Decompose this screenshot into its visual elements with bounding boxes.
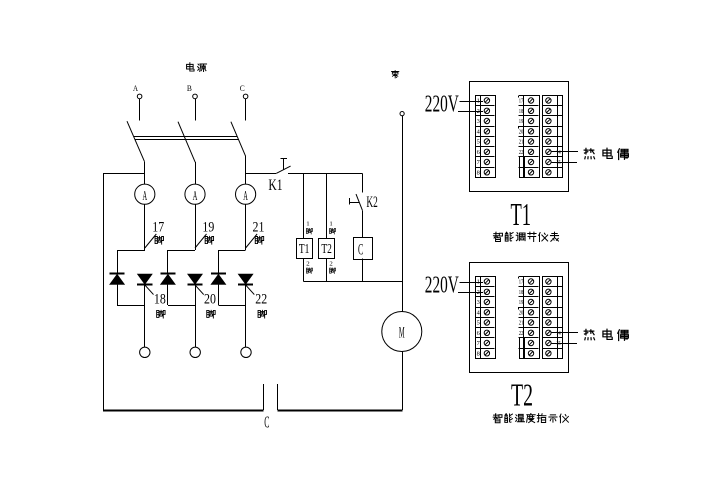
motor M: [382, 312, 422, 352]
wire T2 branch drop: [326, 174, 328, 239]
svg-text:A: A: [133, 83, 139, 93]
instrument box T1: [297, 239, 313, 259]
svg-text:3: 3: [477, 119, 480, 125]
switch K2 blade: [356, 194, 362, 210]
svg-text:B: B: [187, 83, 192, 93]
svg-text:22: 22: [255, 292, 267, 308]
svg-text:22: 22: [519, 331, 524, 337]
wire top bracket phase 3: [218, 250, 245, 252]
terminal screws right strip (T1 panel): [546, 98, 551, 175]
svg-text:2: 2: [329, 261, 332, 268]
wire bottom bus right: [277, 410, 402, 412]
svg-text:K2: K2: [366, 194, 377, 211]
svg-text:19: 19: [519, 119, 524, 125]
svg-text:220V: 220V: [425, 91, 459, 117]
wire thermocouple line 2 (T1 panel): [552, 162, 578, 164]
terminal A (supply input): [137, 94, 142, 99]
wire top bracket phase 2: [168, 250, 195, 252]
wire 220V line 1 (T1 panel): [459, 101, 483, 103]
wire branches bottom bus: [303, 281, 402, 283]
wire C terminal stub: [245, 99, 247, 121]
svg-text:21: 21: [253, 219, 265, 235]
label 热电偶 (thermocouple) (T1 panel): [584, 148, 628, 159]
svg-text:3: 3: [477, 300, 480, 306]
switch K1 blade: [276, 166, 290, 173]
svg-text:15: 15: [556, 341, 561, 347]
leader line pin 17: [145, 234, 157, 248]
svg-text:21: 21: [519, 321, 524, 327]
thyristor VT1b cathode bar: [137, 284, 152, 286]
leader line pin 22: [246, 285, 255, 295]
svg-text:1: 1: [306, 220, 309, 227]
label 电源 (power source): [187, 63, 207, 72]
wire left rail (vertical bus): [103, 174, 105, 410]
svg-text:T2: T2: [511, 376, 533, 412]
terminal screws left strip (T1 panel): [484, 98, 489, 175]
svg-text:6: 6: [477, 331, 480, 337]
terminal strip right (T1 panel): [542, 95, 562, 177]
label pin 2 of T1: [306, 261, 312, 274]
wire branch drop phase 3: [218, 250, 220, 274]
svg-text:T1: T1: [299, 242, 310, 257]
thyristor VT2b cathode bar: [187, 284, 202, 286]
svg-text:1: 1: [329, 220, 332, 227]
thyristor VT3a (up): [211, 274, 226, 284]
svg-text:M: M: [399, 324, 405, 341]
thyristor VT2b (down): [188, 274, 203, 284]
terminal screws middle strip (T2 panel): [528, 279, 533, 356]
svg-text:A: A: [243, 189, 248, 204]
instrument panel outer box (T2 panel): [470, 263, 569, 373]
terminal output 1: [140, 347, 150, 357]
leader line pin 21: [246, 234, 258, 248]
svg-text:C: C: [358, 240, 363, 258]
svg-text:5: 5: [477, 321, 480, 327]
wire K2 to C box: [362, 210, 364, 237]
svg-text:18: 18: [154, 292, 166, 308]
svg-text:22: 22: [519, 150, 524, 156]
wire below T2 box: [326, 258, 328, 281]
terminal B (supply input): [193, 94, 198, 99]
labels left strip pins 1-8 (T1 panel): [477, 99, 480, 177]
wire motor to bottom bus: [402, 352, 404, 411]
svg-text:220V: 220V: [425, 272, 459, 298]
svg-text:5: 5: [477, 140, 480, 146]
thyristor VT1a cathode bar: [110, 273, 125, 275]
instrument panel outer box (T1 panel): [470, 82, 569, 192]
terminal output 2: [190, 347, 200, 357]
thyristor VT1a (up): [110, 274, 125, 284]
wire phase C ammeter to bridge: [245, 204, 247, 250]
terminal strip middle (T1 panel): [519, 95, 540, 177]
terminal output 3: [241, 347, 251, 357]
svg-text:T2: T2: [321, 242, 332, 257]
svg-text:20: 20: [519, 310, 524, 316]
svg-text:T1: T1: [511, 196, 532, 232]
thyristor VT2a (up): [161, 274, 176, 284]
wire bottom bus left: [103, 410, 264, 412]
switch K2 actuator: [349, 198, 359, 205]
label subtitle (T1 panel): [493, 232, 558, 241]
label pin 1 of T1: [306, 220, 312, 234]
svg-text:14: 14: [556, 150, 561, 156]
wire branch drop phase 1: [117, 250, 119, 274]
wire branch below VT3a: [218, 284, 220, 305]
capacitor C left plate: [263, 384, 265, 410]
thyristor VT2a cathode bar: [160, 273, 175, 275]
wire 220V line 2 (T2 panel): [458, 292, 483, 294]
svg-text:K1: K1: [268, 177, 282, 194]
label 热电偶 (thermocouple) (T2 panel): [584, 329, 628, 340]
svg-text:17: 17: [519, 99, 524, 105]
thyristor VT1b (down): [137, 274, 152, 284]
ammeter PA1: [135, 184, 155, 204]
wire left rail to phase A: [103, 173, 145, 175]
svg-text:A: A: [193, 189, 198, 204]
wire branch below VT1a: [117, 284, 119, 305]
label 脚 under 17: [155, 236, 163, 244]
label 脚 under 21: [255, 236, 263, 244]
wire phase A ammeter to bridge: [144, 204, 146, 250]
wire B terminal stub: [195, 99, 197, 121]
svg-text:18: 18: [519, 290, 524, 296]
svg-text:14: 14: [556, 331, 561, 337]
wire A terminal stub: [139, 99, 141, 121]
wire phase C blade to ammeter: [245, 156, 247, 184]
svg-text:19: 19: [202, 219, 214, 235]
wire phase 2 to output: [195, 285, 197, 347]
labels middle strip pins 17-22 (T1 panel): [519, 99, 524, 156]
thyristor VT3a cathode bar: [211, 273, 226, 275]
switch QS linkage bar lower: [135, 139, 239, 141]
switch QS blade phase A: [127, 121, 145, 162]
ammeter PA2: [185, 184, 205, 204]
terminal strip left (T2 panel): [476, 276, 496, 358]
svg-text:A: A: [143, 189, 148, 204]
instrument box T2: [319, 239, 335, 259]
labels right strip pins 14 15 (T1 panel): [556, 150, 561, 166]
terminal screws middle strip (T1 panel): [528, 98, 533, 175]
svg-text:4: 4: [477, 129, 480, 135]
wire bottom bracket phase 3: [218, 305, 245, 307]
leader line pin 20: [195, 285, 204, 295]
relay box C: [354, 238, 373, 260]
wire phase 1 to output: [144, 285, 146, 347]
svg-text:8: 8: [477, 170, 480, 176]
terminal strip left (T1 panel): [476, 95, 496, 177]
thyristor VT3b cathode bar: [238, 284, 253, 286]
wire neutral to motor: [402, 116, 404, 312]
svg-text:7: 7: [477, 341, 480, 347]
switch QS linkage bar upper: [134, 136, 238, 138]
terminal neutral: [400, 112, 404, 116]
svg-text:19: 19: [519, 300, 524, 306]
svg-text:20: 20: [204, 292, 216, 308]
label subtitle (T2 panel): [493, 414, 568, 423]
label 脚 under 19: [205, 236, 213, 244]
svg-text:17: 17: [152, 219, 164, 235]
ammeter PA3: [236, 184, 256, 204]
switch K1 actuator: [281, 158, 287, 170]
wire below C box: [362, 259, 364, 282]
label 脚 under 18: [157, 310, 165, 318]
labels middle strip pins 17-22 (T2 panel): [519, 280, 524, 337]
label 零 (neutral): [391, 71, 398, 78]
svg-text:20: 20: [519, 129, 524, 135]
leader line pin 19: [195, 234, 207, 248]
terminal screws left strip (T2 panel): [484, 279, 489, 356]
wire thermocouple line 2 (T2 panel): [552, 343, 578, 345]
svg-text:15: 15: [556, 160, 561, 166]
label 脚 under 22: [258, 310, 266, 318]
wire phase B blade to ammeter: [195, 162, 197, 184]
wire phase C to K1: [246, 173, 277, 175]
leader line pin 18: [145, 285, 154, 295]
wire 220V line 2 (T1 panel): [458, 111, 483, 113]
wire bottom bracket phase 1: [117, 305, 145, 307]
labels right strip pins 14 15 (T2 panel): [556, 331, 561, 347]
svg-text:7: 7: [477, 160, 480, 166]
terminal screws right strip (T2 panel): [546, 279, 551, 356]
labels left strip pins 1-8 (T2 panel): [477, 280, 480, 358]
wire branch drop phase 2: [167, 250, 169, 274]
thyristor VT3b (down): [238, 274, 253, 284]
svg-text:2: 2: [306, 261, 309, 268]
capacitor C right plate: [277, 384, 279, 410]
terminal C (supply input): [243, 94, 248, 99]
wire T1 branch drop: [303, 174, 305, 239]
svg-text:17: 17: [519, 280, 524, 286]
svg-text:21: 21: [519, 140, 524, 146]
terminal strip right (T2 panel): [542, 276, 562, 358]
wire thermocouple line 1 (T1 panel): [552, 151, 579, 153]
switch QS blade phase C: [231, 122, 246, 157]
svg-text:8: 8: [477, 351, 480, 357]
label pin 1 of T2: [329, 220, 335, 234]
wire phase B ammeter to bridge: [195, 204, 197, 250]
wire phase A blade to ammeter: [144, 162, 146, 184]
svg-text:C: C: [264, 412, 269, 431]
wire bottom bracket phase 2: [168, 305, 195, 307]
wire C branch drop: [362, 174, 364, 193]
wire thermocouple line 1 (T2 panel): [552, 332, 579, 334]
wire phase 3 to output: [245, 285, 247, 347]
svg-text:18: 18: [519, 109, 524, 115]
terminal strip middle (T2 panel): [519, 276, 540, 358]
label pin 2 of T2: [329, 261, 335, 274]
wire K1 to branches bus: [288, 173, 363, 175]
wire below T1 box: [303, 258, 305, 281]
svg-text:4: 4: [477, 310, 480, 316]
wire branch below VT2a: [167, 284, 169, 305]
svg-text:C: C: [240, 83, 245, 93]
label 脚 under 20: [207, 310, 215, 318]
wire 220V line 1 (T2 panel): [459, 282, 483, 284]
wire top bracket phase 1: [117, 250, 145, 252]
switch QS blade phase B: [178, 122, 195, 163]
svg-text:6: 6: [477, 150, 480, 156]
